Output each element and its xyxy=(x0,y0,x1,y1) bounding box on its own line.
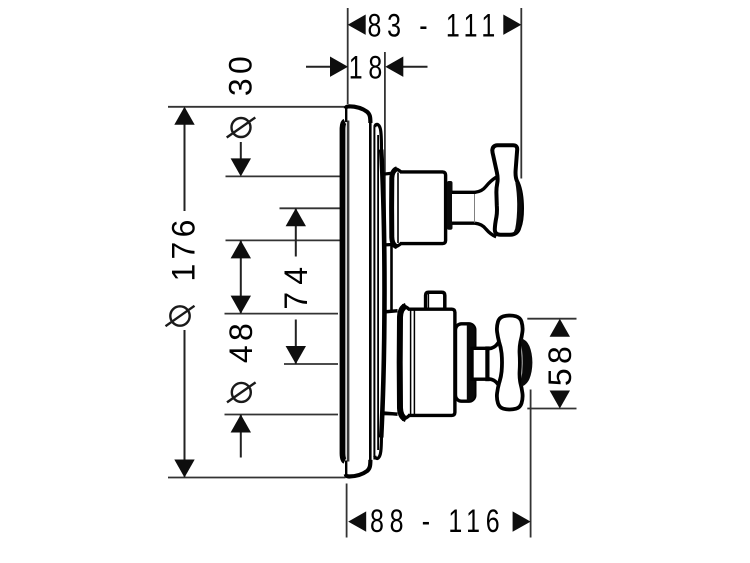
dimension 83-111: arrowheads xyxy=(348,15,522,35)
dimension 88-116: extension lines xyxy=(347,390,531,538)
dimension O30: extension lines xyxy=(226,176,342,240)
top valve: cartridge body xyxy=(400,172,446,244)
dimension 18: extension line xyxy=(384,52,386,290)
bottom valve: cross handle xyxy=(497,316,533,410)
dimension 18: leader lines xyxy=(306,66,428,68)
dimension 74: arrowheads xyxy=(286,208,306,364)
bottom valve: safety-stop knob xyxy=(426,292,445,309)
top valve: sleeve xyxy=(383,169,406,247)
top valve: cap ring xyxy=(447,181,453,230)
dimension O30: arrowheads xyxy=(231,158,251,258)
dimension O176: diameter symbol xyxy=(166,306,195,326)
dimension O176: extension lines xyxy=(168,107,348,478)
dimension O48: extension lines xyxy=(225,314,397,415)
dimension O48: arrowheads xyxy=(231,296,251,433)
top valve: bell flare xyxy=(475,177,499,237)
dimension 58: extension lines xyxy=(527,319,576,409)
dimension O48: diameter symbol xyxy=(227,382,256,402)
svg-text:176: 176 xyxy=(165,215,201,281)
dimension 58: arrowheads xyxy=(550,319,570,409)
dimension O176: arrowheads xyxy=(174,107,194,478)
dimension 83-111: extension lines xyxy=(348,8,522,179)
escutcheon plate (side view) xyxy=(341,106,385,476)
svg-text:18: 18 xyxy=(349,51,388,87)
svg-text:48: 48 xyxy=(223,319,259,363)
bottom valve: sleeve xyxy=(383,306,414,420)
svg-text:58: 58 xyxy=(542,342,578,386)
svg-text:74: 74 xyxy=(278,260,314,310)
dimension 88-116: arrowheads xyxy=(348,511,530,531)
top valve: stem xyxy=(452,191,476,225)
svg-text:30: 30 xyxy=(223,52,259,96)
bottom valve: cartridge body xyxy=(408,309,455,415)
dimension 74: dimension line xyxy=(295,208,297,364)
svg-text:83 - 111: 83 - 111 xyxy=(368,9,501,45)
dimension O30: leader lines xyxy=(240,142,242,314)
dimension 18: arrowheads xyxy=(330,57,403,77)
top valve: lever handle xyxy=(492,145,522,235)
bottom valve: bell flare xyxy=(489,336,505,391)
svg-text:88 - 116: 88 - 116 xyxy=(370,504,505,540)
bottom valve: cap ring xyxy=(456,324,475,401)
dimension O30: diameter symbol xyxy=(227,118,256,138)
dimension O48: leader line xyxy=(240,415,242,458)
connecting sleeve between hubs xyxy=(390,244,393,312)
dimension 74: extension lines xyxy=(280,208,341,364)
bottom valve: stem xyxy=(472,348,487,379)
dimension O176: dimension line xyxy=(184,108,186,477)
